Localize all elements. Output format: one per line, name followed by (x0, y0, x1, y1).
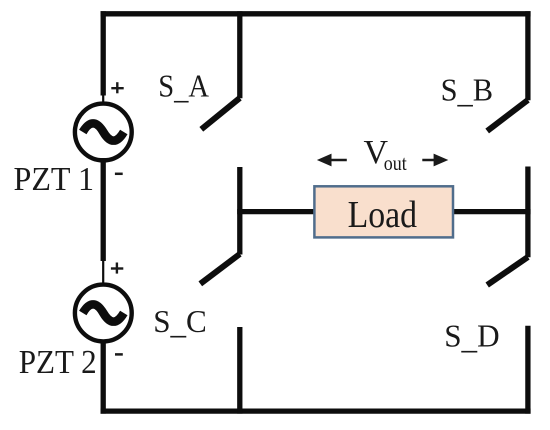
wire: mid-right vertical (S_B lower contact / S_D upper contact) (525, 167, 530, 258)
wire: switch S_D lower contact (to bottom rail) (525, 326, 530, 414)
switch S_C blade (200, 254, 240, 284)
wire: top rail (101, 11, 531, 16)
wire: mid-right horizontal from Load (453, 209, 531, 214)
arrow left (Vout polarity) (317, 154, 347, 167)
switch S_B blade (487, 100, 528, 131)
polarity - of PZT2 (115, 353, 123, 356)
svg-text:Load: Load (348, 194, 418, 236)
wire: thin lead into PZT2 top (102, 260, 104, 286)
wire: bottom rail (101, 408, 531, 413)
switch S_A blade (201, 98, 240, 129)
switch S_D blade (487, 257, 528, 285)
svg-text:out: out (384, 151, 407, 175)
svg-text:S_D: S_D (444, 319, 499, 356)
svg-text:S_B: S_B (441, 73, 493, 110)
wire: mid-left vertical (S_A lower contact / S_C upper contact) (237, 167, 242, 255)
svg-text:PZT 1: PZT 1 (14, 161, 95, 198)
arrow right (Vout polarity) (422, 154, 448, 167)
wire: switch S_C lower contact (to bottom rail) (237, 327, 242, 414)
load resistor box (314, 186, 453, 237)
svg-text:S_A: S_A (158, 69, 209, 106)
wire: thin lead into PZT1 top (102, 95, 104, 105)
wire: left vertical between PZT1 and PZT2 (101, 158, 106, 261)
AC source PZT2 (U2) (75, 285, 132, 342)
polarity - of PZT1 (115, 173, 123, 176)
wire: switch S_A upper contact (from top rail) (237, 11, 242, 98)
wire: left vertical from PZT2 to bottom rail (101, 340, 106, 414)
svg-text:PZT 2: PZT 2 (19, 344, 97, 381)
wire: right vertical from top rail (S_B upper contact) (525, 11, 530, 100)
svg-text:S_C: S_C (153, 304, 207, 341)
wire: left vertical from top rail to PZT1 (101, 11, 106, 95)
label Vout (364, 134, 407, 175)
polarity + of PZT1 (111, 82, 123, 93)
AC source PZT1 (U1) (75, 104, 132, 161)
polarity + of PZT2 (111, 263, 123, 274)
wire: mid-left horizontal to Load (237, 209, 315, 214)
